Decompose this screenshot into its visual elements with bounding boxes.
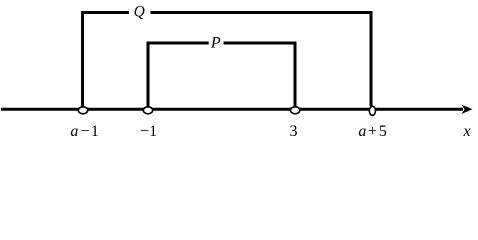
svg-text:3: 3: [290, 123, 298, 140]
svg-text:P: P: [210, 35, 221, 52]
svg-text:a+5: a+5: [358, 123, 387, 140]
interval Q bracket left segment: [83, 13, 130, 107]
svg-text:x: x: [462, 123, 470, 140]
open point at a-1: [78, 107, 87, 114]
interval P bracket left segment: [148, 43, 209, 107]
interval P bracket right segment: [224, 43, 295, 106]
open point at -1: [143, 107, 152, 114]
open point at a+5: [369, 106, 375, 115]
axis line (number line): [1, 108, 463, 111]
axis arrowhead: [462, 105, 473, 114]
svg-text:Q: Q: [134, 4, 145, 21]
interval Q bracket right segment: [151, 13, 372, 107]
open point at 3: [291, 107, 300, 114]
svg-text:−1: −1: [140, 123, 157, 140]
svg-text:a−1: a−1: [70, 123, 99, 140]
